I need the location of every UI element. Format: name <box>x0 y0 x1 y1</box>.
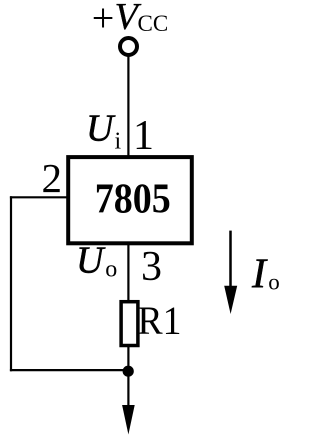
regulator U1 7805 box <box>68 157 192 243</box>
svg-text:1: 1 <box>133 113 154 159</box>
svg-text:CC: CC <box>138 11 169 36</box>
svg-text:i: i <box>115 128 122 154</box>
terminal +Vcc <box>120 38 137 55</box>
wire bottom horizontal <box>10 369 128 371</box>
arrow down (output) <box>122 405 135 435</box>
wire pin 2 horizontal <box>10 196 68 198</box>
wire resistor to junction <box>127 345 129 371</box>
svg-text:R1: R1 <box>138 298 182 343</box>
svg-text:o: o <box>105 257 117 283</box>
wire pin 3 down <box>127 243 129 302</box>
wire left vertical <box>10 196 12 371</box>
svg-text:+: + <box>92 0 115 40</box>
current Io arrow line <box>229 231 232 288</box>
svg-text:7805: 7805 <box>95 177 171 223</box>
svg-text:U: U <box>76 240 106 282</box>
wire junction to arrow <box>127 371 129 406</box>
junction dot <box>123 366 134 377</box>
wire circle to pin 1 <box>127 57 129 158</box>
svg-text:o: o <box>268 269 280 294</box>
svg-text:I: I <box>251 252 268 298</box>
svg-text:3: 3 <box>141 244 162 290</box>
current Io arrowhead <box>224 286 237 314</box>
svg-text:U: U <box>86 108 116 150</box>
svg-text:2: 2 <box>42 155 63 201</box>
resistor R1 body <box>121 302 138 346</box>
